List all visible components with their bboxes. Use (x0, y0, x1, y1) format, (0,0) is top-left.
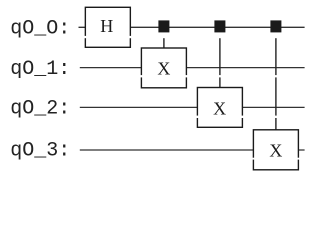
svg-text:X: X (157, 59, 170, 79)
svg-text:qO_2:: qO_2: (10, 98, 70, 121)
svg-text:H: H (100, 16, 113, 36)
svg-text:qO_O:: qO_O: (10, 18, 70, 41)
svg-text:X: X (213, 99, 226, 119)
svg-text:qO_3:: qO_3: (10, 140, 70, 163)
svg-text:X: X (269, 140, 282, 160)
svg-text:qO_1:: qO_1: (10, 58, 70, 81)
